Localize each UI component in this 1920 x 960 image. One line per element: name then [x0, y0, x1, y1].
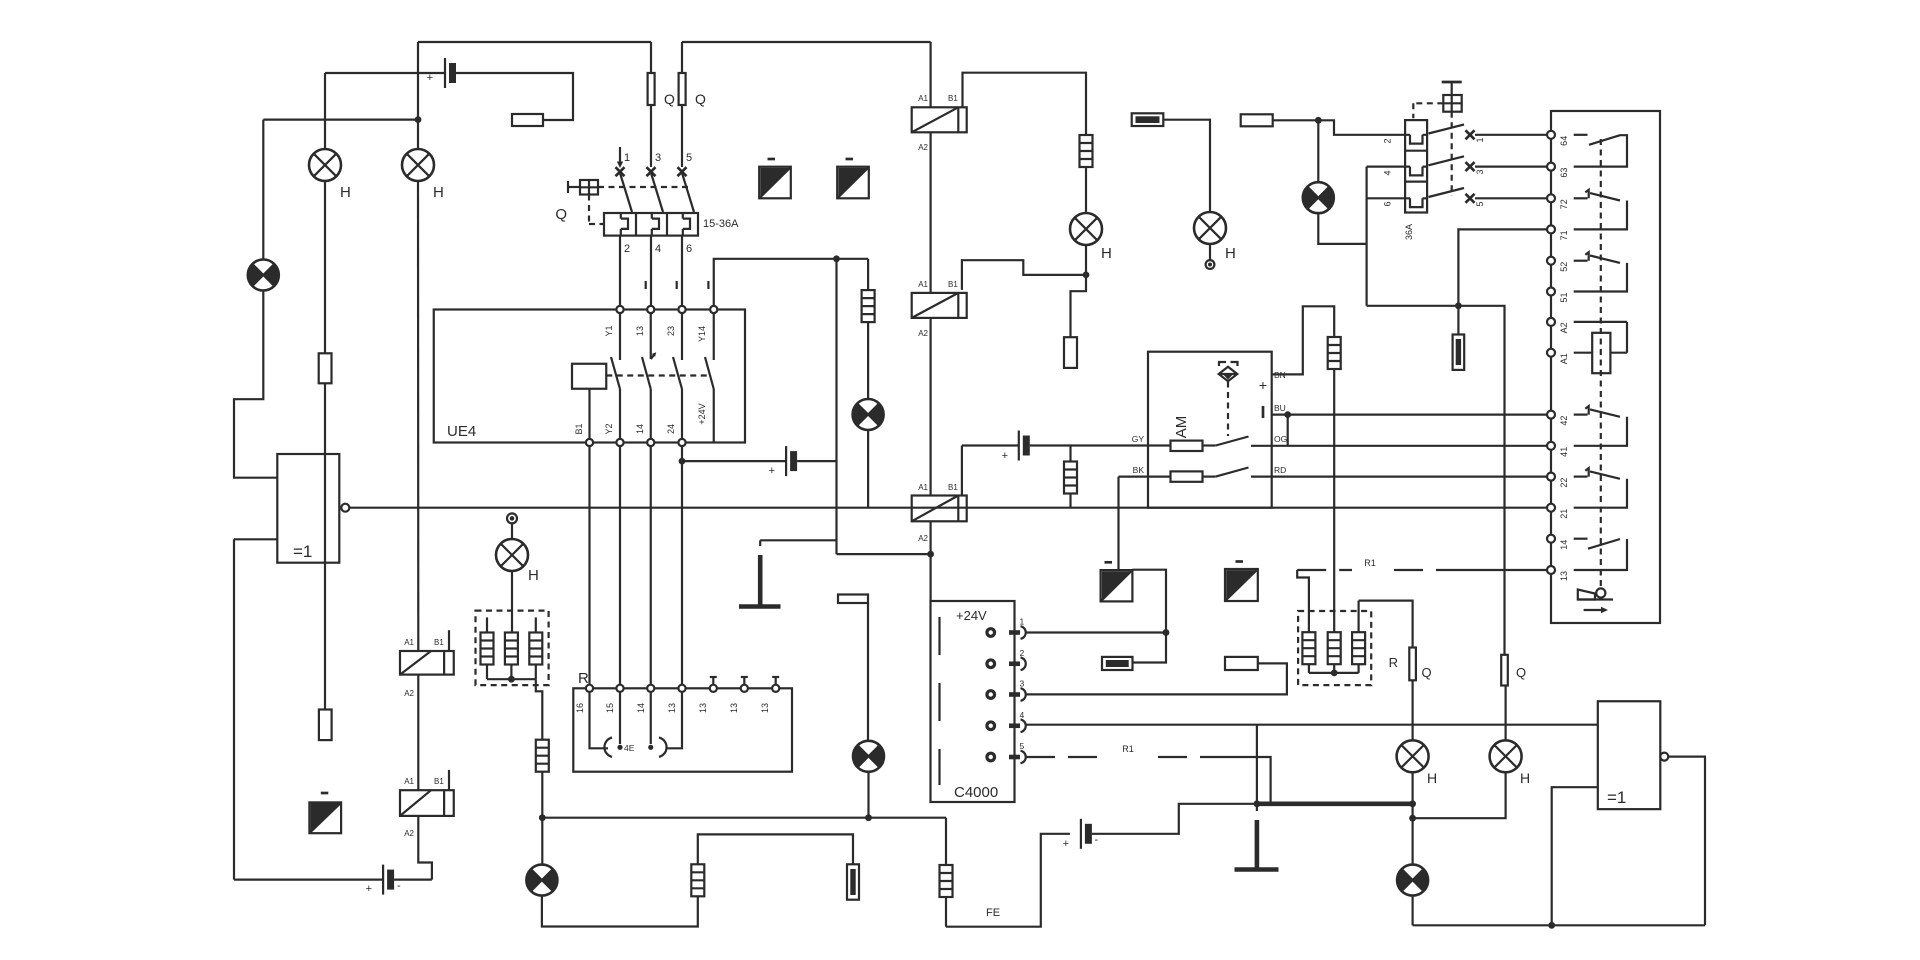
svg-text:A1: A1	[404, 638, 414, 647]
overload notch 2	[652, 213, 659, 236]
svg-text:A2: A2	[918, 534, 928, 543]
converter M2	[309, 802, 341, 833]
lever 36A 1	[1429, 125, 1465, 134]
svg-text:3: 3	[1020, 679, 1025, 689]
trip arrow	[619, 147, 621, 163]
lever Q pole3	[682, 173, 694, 212]
stub 14	[650, 692, 652, 744]
lamp P3	[526, 865, 557, 896]
tick I a	[645, 281, 647, 289]
svg-text:1: 1	[1475, 137, 1485, 142]
svg-text:A1: A1	[918, 94, 928, 103]
svg-text:A1: A1	[918, 280, 928, 289]
pin 1	[985, 627, 996, 638]
wire B1 down	[588, 446, 590, 685]
indicator H7	[507, 513, 517, 523]
terminal 41	[1547, 442, 1555, 450]
node J12	[1254, 800, 1261, 807]
svg-text:H: H	[433, 184, 444, 201]
terminal 63	[1547, 163, 1555, 171]
wire pin1	[1026, 631, 1167, 633]
wire 24 down	[681, 446, 683, 685]
node J10	[539, 814, 546, 821]
svg-text:13: 13	[729, 703, 739, 713]
relay K5	[912, 496, 967, 522]
C4000 box	[931, 601, 1015, 802]
terminal 24	[678, 439, 685, 446]
wire gate2 in2	[1552, 787, 1598, 925]
svg-text:B1: B1	[434, 638, 444, 647]
stub 13	[666, 692, 682, 748]
fuse F6	[1328, 337, 1341, 369]
svg-text:16: 16	[575, 703, 585, 713]
svg-text:51: 51	[1559, 292, 1569, 302]
wire F9 up	[698, 834, 853, 864]
wire H7 down	[511, 571, 513, 632]
wire FE run	[946, 834, 1070, 927]
wire pin5 dash	[1026, 756, 1105, 758]
actuator Q2	[1442, 81, 1462, 84]
node J8	[1455, 302, 1462, 309]
wire X3 to 63	[1475, 166, 1547, 168]
heater 2b	[1328, 632, 1341, 664]
node J1	[415, 116, 422, 123]
svg-text:23: 23	[666, 326, 676, 336]
svg-text:H: H	[340, 184, 351, 201]
AM box	[1148, 352, 1272, 508]
svg-text:+: +	[1063, 838, 1069, 850]
wire bottom right	[1411, 896, 1413, 926]
node J11	[865, 814, 872, 821]
wire Y2 down	[619, 446, 621, 685]
contact 72-71	[1574, 197, 1588, 199]
svg-text:H: H	[1427, 770, 1437, 786]
battery B4	[1019, 431, 1030, 461]
contact 42-41	[1574, 414, 1588, 416]
wire H4 down	[1209, 244, 1211, 260]
resistor R2	[512, 114, 543, 126]
lever Q pole2	[651, 173, 663, 212]
wire v930 low	[929, 521, 931, 601]
terminal R13a	[678, 685, 685, 692]
breaker notch 1	[1405, 135, 1427, 144]
safety relay box	[1551, 111, 1660, 623]
heater 2a	[1302, 632, 1315, 664]
node J9	[1163, 629, 1170, 636]
wire BU 42	[1272, 414, 1548, 416]
fuse F8	[536, 740, 549, 772]
svg-text:+24V: +24V	[697, 403, 707, 424]
svg-text:13: 13	[1559, 571, 1569, 581]
node J6	[1284, 411, 1291, 418]
wire B5 right	[1092, 804, 1257, 834]
svg-text:6: 6	[686, 243, 692, 255]
svg-text:4E: 4E	[624, 743, 635, 753]
svg-text:A1: A1	[918, 483, 928, 492]
svg-text:UE4: UE4	[447, 423, 476, 440]
wire v234 lower	[233, 539, 235, 879]
svg-text:3: 3	[655, 152, 661, 164]
resistor R4	[1225, 657, 1258, 670]
svg-text:+: +	[1259, 377, 1267, 393]
label I	[1262, 406, 1265, 418]
svg-text:RD: RD	[1274, 465, 1286, 475]
svg-text:63: 63	[1559, 168, 1569, 178]
overload notch 1	[621, 213, 628, 236]
wire 14 down	[650, 446, 652, 685]
fuse F7 stub	[1457, 306, 1459, 335]
svg-text:B1: B1	[948, 483, 958, 492]
wire battery B1 left	[325, 72, 445, 74]
node J5	[1083, 272, 1090, 279]
lever 36A 2	[1429, 156, 1465, 165]
wire FR down	[1411, 680, 1413, 740]
earth E2	[1256, 804, 1258, 811]
stub K1 B1	[448, 630, 450, 651]
svg-text:Y1: Y1	[604, 325, 614, 336]
lamp H7 feed	[511, 522, 513, 539]
terminal A2	[1547, 318, 1555, 326]
heater 2c	[1357, 601, 1359, 633]
connector 4E b	[659, 738, 667, 757]
lamp P6	[853, 399, 884, 430]
wire J13 down	[1411, 804, 1413, 818]
svg-text:H: H	[1101, 245, 1112, 262]
svg-text:R1: R1	[1122, 744, 1134, 754]
wire OG 41	[1272, 445, 1548, 447]
wire J8 right	[1458, 306, 1504, 655]
terminal R15	[616, 685, 623, 692]
svg-text:Q: Q	[1516, 665, 1526, 680]
wire J2 drop	[835, 259, 837, 554]
wire BK in	[1119, 476, 1171, 478]
wire J8 to 71	[1458, 229, 1547, 305]
wire left bus	[263, 118, 418, 120]
wire T1 to H4	[1163, 120, 1210, 212]
wire 818 line	[542, 817, 946, 819]
terminal R14	[647, 685, 654, 692]
gate G2 output	[1660, 753, 1668, 761]
relay K3	[912, 107, 967, 132]
svg-text:Q: Q	[1422, 665, 1432, 680]
svg-text:+: +	[427, 72, 433, 84]
svg-text:A2: A2	[918, 143, 928, 152]
lamp H1 feed	[324, 73, 326, 149]
lever 36A 3	[1429, 188, 1465, 197]
terminal B1	[586, 439, 593, 446]
svg-text:13: 13	[760, 703, 770, 713]
svg-text:B1: B1	[948, 280, 958, 289]
heater box1	[476, 611, 549, 686]
svg-text:BK: BK	[1133, 465, 1145, 475]
wire GY bus b	[1030, 444, 1171, 446]
coil A1-A2	[1574, 321, 1627, 323]
wire R1 dash2	[1297, 569, 1352, 571]
lamp H2	[402, 149, 434, 181]
node J13	[1409, 800, 1416, 807]
svg-text:H: H	[1225, 245, 1236, 262]
wire X5 to 72	[1475, 197, 1547, 199]
node J7	[1315, 117, 1322, 124]
cam arrow	[1584, 609, 1603, 611]
gate G1 input2	[234, 538, 277, 540]
fuse F5 drop	[1069, 446, 1071, 463]
lamp H6	[1490, 740, 1522, 772]
wire J12 up	[1256, 725, 1258, 804]
wire H6 link	[1413, 772, 1506, 818]
wire H5 down	[1411, 772, 1413, 804]
fuse F9	[691, 864, 704, 896]
svg-text:A1: A1	[1559, 353, 1569, 364]
terminal 13	[1547, 566, 1555, 574]
converter M1a	[759, 167, 791, 199]
lamp P4	[853, 741, 884, 772]
fuse T1	[1132, 113, 1164, 126]
wire P4 down	[867, 772, 869, 818]
gate G1 =1	[277, 454, 339, 563]
connector 4E a	[604, 738, 612, 757]
cam actuator	[1578, 590, 1595, 600]
svg-text:A2: A2	[404, 689, 414, 698]
gate G2 =1	[1598, 701, 1661, 809]
wire bottom bus	[1413, 924, 1705, 926]
node J2	[833, 255, 840, 262]
wire K2 A2	[418, 816, 432, 880]
heater 1a	[486, 617, 488, 632]
battery B1	[445, 58, 456, 88]
wire pole2 down	[650, 236, 652, 306]
wire v325 long	[324, 383, 326, 709]
lamp H4	[1194, 212, 1226, 244]
contact Y1-Y2	[619, 313, 621, 360]
fuse F10 stub	[847, 864, 859, 899]
terminal block TB	[838, 595, 868, 604]
wire pole6	[1367, 197, 1405, 199]
fuse F1	[319, 353, 332, 383]
lamp H5	[1397, 740, 1429, 772]
wire top bus left	[418, 41, 651, 43]
svg-text:41: 41	[1559, 447, 1569, 457]
pin 5	[985, 752, 996, 763]
svg-text:15-36A: 15-36A	[703, 218, 739, 230]
node J14	[1409, 815, 1416, 822]
wire pole3 down	[681, 236, 683, 306]
wire pole4	[1367, 166, 1405, 168]
wire pin5 solid	[1208, 757, 1271, 804]
contact X5	[678, 167, 687, 176]
fuse F2 stub	[319, 710, 332, 741]
lamp P5	[1397, 865, 1428, 896]
fuse F11	[940, 865, 953, 897]
battery B5	[1081, 819, 1092, 849]
heater box2	[1298, 611, 1371, 685]
breaker notch 2	[1405, 167, 1427, 176]
fuse Q2	[681, 42, 683, 73]
wire F3 to H3	[1085, 167, 1087, 213]
wire pole1 down	[619, 236, 621, 306]
wire BK down	[1117, 477, 1119, 570]
heater tie2	[1308, 664, 1310, 673]
relay K2	[400, 790, 454, 816]
svg-text:FE: FE	[986, 907, 1000, 919]
overload block 15-36A	[604, 213, 698, 236]
svg-text:2: 2	[624, 243, 630, 255]
wire F12 to P6	[867, 322, 869, 399]
battery B2	[383, 865, 394, 895]
switch BK	[1203, 476, 1216, 478]
wire K5 B1	[961, 446, 963, 496]
lamp P1	[248, 260, 279, 291]
svg-text:14: 14	[1559, 540, 1569, 550]
tick I b	[676, 281, 678, 289]
tick I c	[707, 281, 709, 289]
fuse F3	[1080, 135, 1093, 167]
wire pin4	[1026, 724, 1598, 726]
gate G1 output node	[341, 504, 349, 512]
wire R1 solid	[1449, 569, 1547, 571]
pin 2	[985, 658, 996, 669]
svg-text:1: 1	[1020, 617, 1025, 627]
svg-text:4: 4	[1020, 710, 1025, 720]
svg-text:Q: Q	[664, 91, 675, 107]
wire J5 left	[962, 260, 1086, 290]
terminal 23	[678, 306, 685, 313]
fuse F4 stub	[1064, 337, 1077, 368]
wire Y14 top	[714, 259, 868, 306]
converter M4	[1225, 569, 1258, 601]
wire P2 down	[1318, 213, 1366, 244]
svg-text:C4000: C4000	[954, 784, 998, 801]
overload notch 3	[683, 213, 690, 236]
wire BU-OG link	[1287, 415, 1289, 446]
svg-text:4: 4	[1383, 170, 1393, 175]
svg-text:36A: 36A	[1404, 224, 1414, 240]
wire main 508 line	[349, 507, 1547, 509]
svg-text:2: 2	[1383, 138, 1393, 143]
dashed link Q	[598, 186, 688, 188]
svg-text:H: H	[1520, 770, 1530, 786]
lamp H1	[309, 149, 341, 181]
contact X36 3	[1466, 162, 1475, 171]
wire to battery B3	[682, 460, 786, 462]
svg-text:2: 2	[1020, 648, 1025, 658]
contact 52-51	[1574, 260, 1588, 262]
wire P3 bottom	[542, 896, 698, 927]
fuse BK	[1171, 471, 1203, 481]
svg-text:Q: Q	[695, 91, 706, 107]
actuator Q box	[567, 181, 569, 193]
wire X1 to 64	[1475, 134, 1547, 136]
svg-text:64: 64	[1559, 136, 1569, 146]
breaker 36A box	[1405, 120, 1427, 212]
wire BN	[1272, 306, 1335, 374]
relay K1	[400, 651, 454, 675]
wire J7 down	[1317, 120, 1319, 182]
svg-text:=1: =1	[1607, 788, 1626, 807]
contact X36 5	[1466, 194, 1475, 203]
wire J14 down	[1411, 818, 1413, 864]
wire F6 down	[1333, 369, 1335, 632]
svg-text:1: 1	[624, 152, 630, 164]
C4000 dash	[938, 617, 940, 785]
svg-text:13: 13	[635, 326, 645, 336]
heater 1c	[535, 617, 537, 632]
terminal 14	[647, 439, 654, 446]
wire bank2 to RQ	[1359, 601, 1413, 648]
heater tie1	[486, 665, 488, 679]
contact 64-63	[1574, 134, 1588, 136]
wire v263 lower	[234, 291, 277, 478]
contact X1	[616, 167, 625, 176]
wire v930 top	[929, 42, 931, 107]
wire RD 22	[1272, 476, 1548, 478]
svg-text:5: 5	[1475, 201, 1485, 206]
svg-text:Y2: Y2	[604, 423, 614, 434]
stub 16	[590, 692, 609, 748]
terminal 52	[1547, 257, 1555, 265]
sensor dash	[1227, 382, 1229, 437]
svg-text:+24V: +24V	[956, 608, 987, 623]
R block box	[573, 688, 792, 771]
wire v418 upper	[417, 42, 419, 149]
wire v418 to coil K1	[417, 181, 419, 651]
terminal 14	[1547, 535, 1555, 543]
coil UE4 to B1	[588, 389, 590, 439]
wire Y14 drop	[867, 259, 869, 290]
svg-text:14: 14	[635, 424, 645, 434]
wire lamp H1 down	[324, 181, 326, 353]
heater 1b	[505, 633, 518, 665]
wire bank1 out	[536, 679, 543, 740]
svg-text:OG: OG	[1274, 434, 1287, 444]
switch GY	[1203, 444, 1216, 446]
node J4	[927, 551, 934, 558]
fuse FQ2	[1501, 655, 1508, 686]
wire H6 up	[1504, 686, 1506, 741]
svg-text:Q: Q	[555, 206, 567, 223]
dash Q2 b	[1451, 112, 1453, 196]
wire J10 down	[541, 818, 543, 865]
terminal Y14	[710, 306, 717, 313]
wire J5 stub	[1071, 275, 1087, 337]
wire H3 down	[1085, 245, 1087, 275]
svg-text:R1: R1	[1364, 558, 1376, 568]
svg-text:+: +	[366, 883, 372, 895]
svg-text:15: 15	[605, 703, 615, 713]
svg-text:72: 72	[1559, 199, 1569, 209]
dash cam	[1600, 139, 1602, 589]
lamp H3	[1070, 213, 1102, 245]
terminal 64	[1547, 131, 1555, 139]
wire v1366 bottom	[1367, 305, 1459, 307]
contact 22-21	[1574, 476, 1588, 478]
wire thick bus	[1257, 801, 1413, 806]
wire M3 loop	[1132, 570, 1166, 663]
contact Y14-24V	[713, 313, 715, 360]
svg-text:B1: B1	[434, 777, 444, 786]
wire J7 pole2	[1318, 120, 1405, 135]
svg-text:+: +	[769, 465, 775, 477]
terminal R13b	[710, 685, 717, 692]
terminal A1	[1547, 349, 1555, 357]
node J15	[1548, 922, 1555, 929]
wire battery B2 right	[394, 878, 432, 880]
svg-text:-: -	[397, 880, 401, 892]
sensor S1	[1219, 362, 1238, 366]
dashed UE4	[606, 374, 709, 376]
fuse GY	[1171, 441, 1203, 451]
stub 15	[619, 692, 621, 744]
